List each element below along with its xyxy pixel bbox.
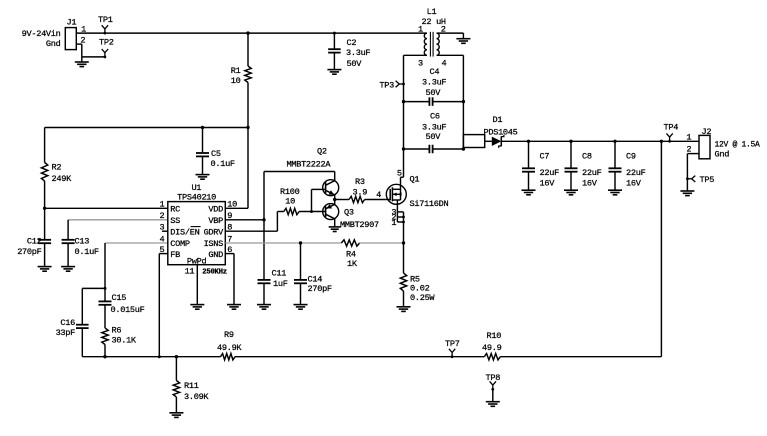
svg-text:C16: C16 [60,318,75,328]
svg-text:VBP: VBP [208,216,223,226]
svg-text:SS: SS [170,216,180,226]
svg-text:D1: D1 [493,115,503,125]
svg-text:Q3: Q3 [344,207,354,217]
svg-text:R9: R9 [224,330,234,340]
svg-text:C9: C9 [626,151,636,161]
svg-text:250KHz: 250KHz [202,268,226,276]
svg-text:5: 5 [397,169,402,179]
svg-text:0.1uF: 0.1uF [75,247,99,257]
svg-text:Si7116DN: Si7116DN [410,199,449,209]
svg-text:C13: C13 [75,237,90,247]
svg-text:Q1: Q1 [410,174,420,184]
svg-text:16V: 16V [626,179,642,189]
svg-text:9V-24Vin: 9V-24Vin [22,29,61,39]
svg-text:1uF: 1uF [273,279,288,289]
svg-text:22uF: 22uF [582,168,602,178]
svg-text:R1: R1 [231,66,241,76]
svg-text:10: 10 [227,200,237,210]
svg-text:TP7: TP7 [445,339,460,349]
svg-text:TP1: TP1 [98,15,113,25]
svg-text:4: 4 [159,234,164,244]
svg-text:2: 2 [80,36,85,46]
svg-text:PDS1045: PDS1045 [484,128,518,138]
svg-text:VDD: VDD [208,205,223,215]
svg-text:TP8: TP8 [486,373,501,383]
svg-text:10: 10 [231,76,241,86]
svg-text:1: 1 [391,218,396,228]
svg-text:1: 1 [159,200,164,210]
svg-text:33pF: 33pF [56,328,76,338]
svg-text:MMBT2222A: MMBT2222A [287,160,332,170]
svg-text:0.1uF: 0.1uF [211,159,235,169]
svg-text:11: 11 [185,266,195,276]
svg-text:C2: C2 [347,38,357,48]
svg-text:50V: 50V [426,88,442,98]
svg-text:C15: C15 [112,293,127,303]
svg-text:C14: C14 [308,275,323,285]
svg-text:Q2: Q2 [317,146,327,156]
svg-text:16V: 16V [582,179,598,189]
svg-text:TP2: TP2 [99,38,114,48]
svg-text:RC: RC [170,205,180,215]
svg-text:TP4: TP4 [664,123,679,133]
svg-text:3.3uF: 3.3uF [422,122,446,132]
svg-text:COMP: COMP [170,239,190,249]
svg-text:3.09K: 3.09K [184,392,209,402]
svg-text:GDRV: GDRV [204,227,225,237]
svg-text:ISNS: ISNS [204,239,224,249]
svg-text:1: 1 [81,25,86,35]
svg-text:3.9: 3.9 [353,187,368,197]
svg-text:5: 5 [159,245,164,255]
svg-text:L1: L1 [427,7,437,17]
svg-text:FB: FB [170,250,180,260]
svg-text:10: 10 [285,197,295,207]
svg-text:16V: 16V [540,179,556,189]
svg-text:TP5: TP5 [700,175,715,185]
svg-text:TP3: TP3 [379,81,394,91]
svg-text:1: 1 [686,132,691,142]
svg-text:Gnd: Gnd [46,39,61,49]
svg-text:J1: J1 [67,18,77,28]
svg-text:C12: C12 [27,237,42,247]
svg-text:50V: 50V [347,59,363,69]
svg-text:249K: 249K [52,174,73,184]
svg-text:1K: 1K [347,259,358,269]
svg-text:22uF: 22uF [626,168,646,178]
svg-text:MMBT2907: MMBT2907 [340,220,379,230]
svg-text:49.9: 49.9 [482,343,502,353]
svg-text:C7: C7 [540,151,550,161]
svg-text:2: 2 [686,145,691,155]
svg-text:270pF: 270pF [308,284,332,294]
svg-text:DIS/EN: DIS/EN [170,227,199,237]
svg-text:GND: GND [208,250,223,260]
svg-text:J2: J2 [702,127,712,137]
svg-text:C5: C5 [211,149,221,159]
svg-text:TPS40210: TPS40210 [177,193,216,203]
svg-text:3.3uF: 3.3uF [422,77,446,87]
svg-text:C8: C8 [582,151,592,161]
svg-text:49.9K: 49.9K [217,343,242,353]
svg-text:R10: R10 [487,331,502,341]
svg-text:3: 3 [418,58,423,68]
svg-text:4: 4 [376,190,381,200]
svg-text:R4: R4 [346,249,356,259]
svg-text:50V: 50V [426,132,442,142]
svg-text:12V @ 1.5A: 12V @ 1.5A [715,140,761,149]
svg-text:3.3uF: 3.3uF [346,48,370,58]
svg-text:30.1K: 30.1K [112,335,137,345]
svg-text:4: 4 [442,58,447,68]
svg-text:C11: C11 [272,268,287,278]
svg-text:C4: C4 [430,67,440,77]
svg-text:R2: R2 [52,163,62,173]
svg-text:R3: R3 [355,177,365,187]
svg-text:0.25W: 0.25W [410,293,435,303]
svg-text:0.015uF: 0.015uF [111,305,145,315]
svg-text:C6: C6 [430,111,440,121]
svg-text:270pF: 270pF [17,247,41,257]
svg-text:1: 1 [418,25,423,35]
svg-text:Gnd: Gnd [715,150,730,160]
svg-text:R11: R11 [184,381,199,391]
svg-text:2: 2 [159,211,164,221]
svg-text:R6: R6 [112,325,122,335]
svg-text:U1: U1 [191,183,201,193]
svg-text:22uF: 22uF [540,168,560,178]
